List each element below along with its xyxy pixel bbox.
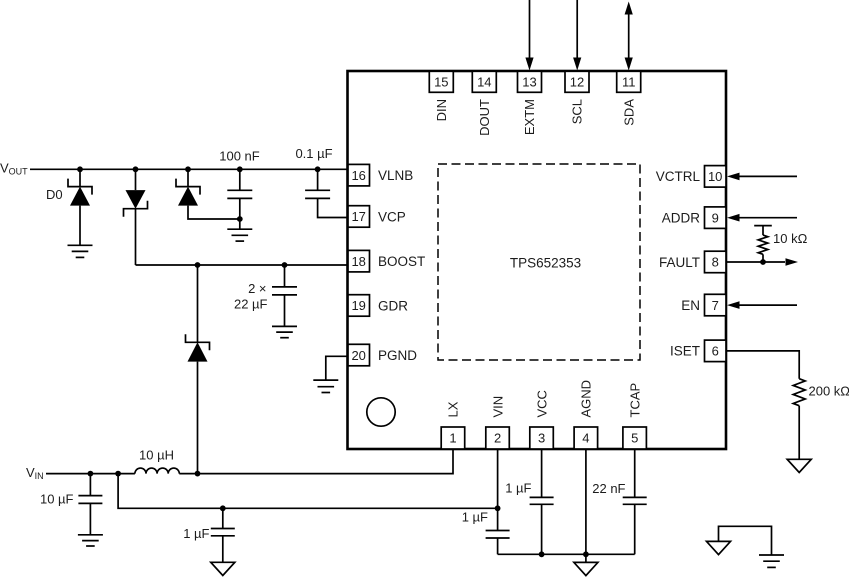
diode D0 (schottky, cathode up) bbox=[68, 179, 92, 206]
pin 13 (EXTM) bbox=[518, 71, 542, 135]
wire 10uF top bbox=[89, 474, 91, 496]
wire FAULT output bbox=[726, 261, 785, 263]
svg-text:10 µF: 10 µF bbox=[40, 492, 74, 507]
pin 17 (VCP) bbox=[348, 206, 406, 228]
svg-text:19: 19 bbox=[351, 298, 365, 313]
svg-text:9: 9 bbox=[712, 210, 719, 225]
svg-text:3: 3 bbox=[538, 431, 545, 446]
capacitor 0.1uF bbox=[305, 190, 330, 198]
svg-text:20: 20 bbox=[351, 348, 365, 363]
svg-text:EN: EN bbox=[681, 298, 700, 313]
pin 4 (AGND) bbox=[574, 380, 598, 449]
svg-text:2: 2 bbox=[494, 431, 501, 446]
svg-text:VCC: VCC bbox=[534, 390, 549, 417]
arrow into EXTM bbox=[525, 58, 533, 71]
svg-text:13: 13 bbox=[522, 75, 536, 90]
capacitor 10uF bbox=[78, 496, 102, 504]
wire 22uF top bbox=[284, 265, 286, 287]
wire 10uF bottom bbox=[89, 503, 91, 534]
svg-text:5: 5 bbox=[631, 431, 638, 446]
pin 1 (LX) bbox=[441, 401, 465, 449]
diode D3 (schottky, cathode up) bbox=[176, 179, 200, 206]
svg-text:PGND: PGND bbox=[378, 348, 417, 363]
arrow into VCTRL bbox=[727, 173, 740, 181]
svg-text:22 nF: 22 nF bbox=[592, 481, 625, 496]
wire 100nF top bbox=[239, 169, 241, 190]
node BOOST junction at 22uF bbox=[282, 262, 288, 268]
svg-text:1 µF: 1 µF bbox=[505, 481, 531, 496]
pin 2 (VIN) bbox=[486, 396, 510, 449]
svg-text:EXTM: EXTM bbox=[522, 99, 537, 135]
svg-text:1 µF: 1 µF bbox=[462, 510, 488, 525]
wire 0.1uF bottom to pin 17 bbox=[318, 198, 350, 217]
wire ISET to resistor bbox=[726, 351, 799, 379]
svg-text:FAULT: FAULT bbox=[659, 255, 700, 270]
wire EXTM input from top bbox=[529, 0, 531, 58]
wire VCC cap to bottom rail bbox=[541, 504, 543, 554]
resistor 10 kOhm pull-up bbox=[754, 226, 772, 262]
node branch junction at 1uF bbox=[220, 505, 226, 511]
label VIN bbox=[26, 465, 44, 481]
wire lower diode anode to LX rail bbox=[197, 362, 199, 474]
svg-text:100 nF: 100 nF bbox=[219, 149, 260, 164]
IC U1 internal dashed outline bbox=[438, 164, 640, 360]
arrow out of FAULT bbox=[786, 258, 799, 266]
wire D3 cathode bbox=[187, 169, 189, 186]
arrow into SCL bbox=[573, 58, 581, 71]
ground below 100nF bbox=[227, 229, 252, 241]
arrow into ADDR bbox=[727, 214, 740, 222]
IC U1 TPS652353 body bbox=[348, 71, 727, 449]
svg-text:22 µF: 22 µF bbox=[234, 297, 268, 312]
wire 200k to ground bbox=[798, 406, 800, 460]
wire lower diode cathode from BOOST bbox=[197, 265, 199, 342]
svg-text:17: 17 bbox=[351, 209, 365, 224]
svg-text:2 ×: 2 × bbox=[248, 281, 266, 296]
node VOUT junction at D3 bbox=[185, 166, 191, 172]
svg-text:GDR: GDR bbox=[378, 298, 408, 313]
pin 12 (SCL) bbox=[565, 71, 589, 124]
arrow SDA down into pin bbox=[625, 58, 633, 71]
svg-text:OUT: OUT bbox=[9, 167, 29, 177]
svg-text:11: 11 bbox=[622, 75, 636, 90]
wire pin 2 VIN down bbox=[497, 449, 499, 531]
svg-text:DIN: DIN bbox=[434, 99, 449, 121]
svg-text:VCTRL: VCTRL bbox=[656, 169, 701, 184]
wire VIN branch rail to pin 2 bbox=[118, 474, 498, 509]
wire SCL input from top bbox=[576, 0, 578, 58]
node VIN junction at 10uF bbox=[88, 471, 94, 477]
svg-text:VCP: VCP bbox=[378, 209, 406, 224]
node VIN junction at branch bbox=[115, 471, 121, 477]
node VOUT junction at D0 bbox=[77, 166, 83, 172]
svg-text:SDA: SDA bbox=[621, 99, 636, 126]
ground bars on tie bbox=[759, 555, 784, 567]
svg-text:VIN: VIN bbox=[490, 396, 505, 418]
wire D0 cathode bbox=[79, 169, 81, 186]
wire bottom ground rail bbox=[498, 553, 635, 555]
node branch junction at pin 2 bbox=[495, 505, 501, 511]
wire 0.1uF top bbox=[317, 169, 319, 190]
capacitor 1uF at VCC bbox=[530, 497, 554, 504]
pin 3 (VCC) bbox=[530, 390, 554, 449]
node FAULT junction at resistor bbox=[760, 259, 766, 265]
ground triangle below 1uF input bbox=[211, 562, 235, 575]
node LX junction at diode bbox=[195, 471, 201, 477]
pin 7 (EN) bbox=[681, 294, 726, 316]
wire 22uF bottom bbox=[284, 295, 286, 327]
svg-text:D0: D0 bbox=[46, 187, 63, 202]
node VOUT junction at 100nF bbox=[237, 166, 243, 172]
svg-text:TCAP: TCAP bbox=[627, 383, 642, 418]
svg-text:10 µH: 10 µH bbox=[139, 448, 174, 463]
pin 16 (VLNB) bbox=[348, 164, 413, 186]
wire 1uF input bottom bbox=[222, 536, 224, 563]
diode D4 (schottky, cathode up) bbox=[186, 334, 210, 361]
wire D3 anode to 100nF node bbox=[188, 206, 240, 219]
ground below D0 bbox=[68, 245, 93, 257]
svg-text:VLNB: VLNB bbox=[378, 168, 413, 183]
node bottom rail at VCC bbox=[539, 551, 545, 557]
wire EN input bbox=[740, 304, 798, 306]
wire VOUT rail bbox=[30, 168, 350, 170]
svg-text:16: 16 bbox=[351, 168, 365, 183]
wire AGND-PGND tie bbox=[719, 526, 772, 555]
svg-text:10 kΩ: 10 kΩ bbox=[773, 231, 808, 246]
pin 15 (DIN) bbox=[429, 71, 453, 121]
pin 9 (ADDR) bbox=[662, 207, 726, 229]
pin 10 (VCTRL) bbox=[656, 166, 726, 188]
svg-text:7: 7 bbox=[712, 298, 719, 313]
svg-text:4: 4 bbox=[582, 431, 589, 446]
wire 1uF input top bbox=[222, 508, 224, 528]
label VOUT bbox=[0, 161, 28, 177]
ground triangle below AGND bbox=[574, 562, 598, 575]
wire 1uF to bottom rail bbox=[497, 538, 499, 554]
wire PGND to ground bbox=[326, 356, 350, 380]
wire VCTRL input bbox=[740, 175, 798, 177]
ground below 22uF bbox=[272, 326, 297, 337]
wire SDA bidirectional bbox=[628, 14, 630, 59]
svg-text:DOUT: DOUT bbox=[477, 99, 492, 136]
svg-text:15: 15 bbox=[434, 75, 448, 90]
wire pin 4 AGND down bbox=[585, 449, 587, 562]
ground at PGND bbox=[313, 380, 338, 392]
pin 5 (TCAP) bbox=[623, 383, 647, 449]
svg-text:LX: LX bbox=[446, 401, 461, 417]
wire 100nF bottom bbox=[239, 198, 241, 229]
node VOUT junction at 0.1uF bbox=[315, 166, 321, 172]
wire pin 5 TCAP down bbox=[634, 449, 636, 497]
capacitor 22nF bbox=[623, 497, 647, 504]
svg-text:BOOST: BOOST bbox=[378, 254, 425, 269]
resistor 200 kOhm bbox=[793, 379, 805, 406]
arrow SDA up bbox=[625, 2, 633, 15]
pin 18 (BOOST) bbox=[348, 250, 425, 272]
node BOOST junction at lower diode bbox=[195, 262, 201, 268]
node junction 100nF/D3 bbox=[237, 216, 243, 222]
svg-text:8: 8 bbox=[712, 255, 719, 270]
label 2x 22uF bbox=[234, 281, 268, 312]
capacitor 100nF bbox=[227, 190, 252, 198]
svg-text:14: 14 bbox=[477, 75, 491, 90]
ground below 10uF bbox=[78, 535, 103, 546]
svg-text:1: 1 bbox=[449, 431, 456, 446]
wire pin 3 VCC down bbox=[541, 449, 543, 497]
svg-text:12: 12 bbox=[570, 75, 584, 90]
svg-text:SCL: SCL bbox=[570, 99, 585, 124]
pin 19 (GDR) bbox=[348, 295, 408, 317]
pin 8 (FAULT) bbox=[659, 251, 726, 273]
pin 14 (DOUT) bbox=[472, 71, 496, 136]
wire D2 anode bbox=[135, 169, 137, 190]
wire VIN rail left bbox=[46, 473, 135, 475]
ground triangle below 200k bbox=[787, 459, 811, 472]
capacitor 1uF at VIN pin bbox=[486, 531, 510, 539]
wire LX rail to pin 1 bbox=[179, 449, 453, 474]
arrow into EN bbox=[727, 301, 740, 309]
svg-text:0.1 µF: 0.1 µF bbox=[295, 146, 332, 161]
inductor L1 10uH bbox=[135, 468, 179, 474]
node VOUT junction at D2 bbox=[133, 166, 139, 172]
svg-text:IN: IN bbox=[35, 471, 44, 481]
node bottom rail at AGND bbox=[583, 551, 589, 557]
svg-text:ADDR: ADDR bbox=[662, 211, 701, 226]
pin-1 indicator circle bbox=[367, 398, 395, 426]
svg-text:200 kΩ: 200 kΩ bbox=[809, 384, 849, 399]
capacitor 2x22uF bbox=[272, 287, 297, 295]
svg-text:6: 6 bbox=[712, 344, 719, 359]
svg-text:1 µF: 1 µF bbox=[183, 526, 209, 541]
svg-text:AGND: AGND bbox=[579, 380, 594, 418]
pin 6 (ISET) bbox=[670, 340, 726, 362]
wire ADDR input bbox=[740, 217, 798, 219]
ground triangle on tie bbox=[707, 541, 731, 554]
svg-text:TPS652353: TPS652353 bbox=[510, 256, 581, 271]
wire BOOST rail bbox=[136, 264, 351, 266]
wire D2 cathode to BOOST rail bbox=[135, 209, 137, 265]
pin 20 (PGND) bbox=[348, 344, 417, 366]
wire D0 anode to ground bbox=[79, 206, 81, 246]
capacitor 1uF input bbox=[211, 529, 235, 536]
svg-text:18: 18 bbox=[351, 254, 365, 269]
svg-text:ISET: ISET bbox=[670, 344, 700, 359]
diode D2 (schottky, cathode down) bbox=[124, 190, 148, 217]
pin 11 (SDA) bbox=[617, 71, 641, 125]
svg-text:10: 10 bbox=[708, 169, 722, 184]
wire TCAP cap to bottom rail bbox=[634, 504, 636, 554]
